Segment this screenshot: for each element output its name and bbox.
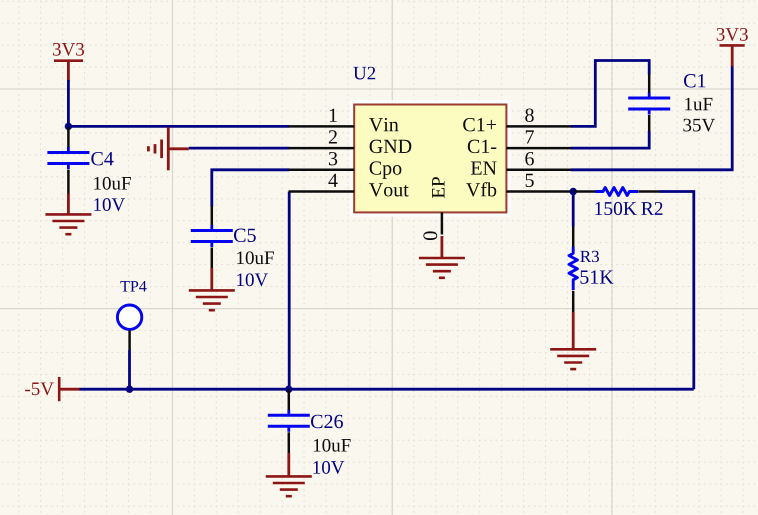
capacitor C4	[47, 147, 89, 169]
C4 designator label	[91, 152, 113, 165]
wire R2 to rail	[660, 192, 694, 390]
U2 pin 5 (Vfb)	[466, 174, 571, 197]
U2 pin 3 (Cpo)	[289, 152, 402, 179]
capacitor C26 ground lead	[287, 453, 290, 476]
capacitor C4 lead top	[67, 127, 70, 148]
wire net C1+ (pin 8 to C1)	[571, 61, 649, 127]
wire net EN (pin 6 to 3V3)	[571, 66, 732, 170]
junction at C26 / Vout / -5V rail	[285, 386, 292, 393]
capacitor C5	[191, 225, 233, 247]
capacitor C5 ground lead	[210, 268, 213, 290]
U2 pin 1 (Vin)	[289, 109, 399, 132]
C1 designator label	[684, 74, 705, 87]
C26 designator label	[311, 415, 343, 428]
R3 value 51K	[580, 270, 613, 283]
IC U2 body	[354, 105, 506, 213]
capacitor C4 lead bottom	[67, 170, 70, 194]
TP4 label	[120, 281, 146, 292]
power port 3V3 (right)	[717, 28, 748, 66]
wire net Vin (to pin 1)	[68, 125, 289, 128]
wire net C1- (C1 to pin 7)	[571, 131, 649, 148]
junction at 3V3/C4/Vin	[65, 123, 72, 130]
op-amp U2 body halo	[352, 102, 509, 215]
C26 value 10V	[313, 461, 344, 474]
test point TP4 pad	[117, 305, 141, 329]
C1 value 1uF	[685, 98, 712, 111]
resistor R3	[569, 247, 577, 290]
power port 3V3 (left)	[53, 43, 84, 81]
U2 pin 8 (C1+)	[463, 109, 571, 132]
capacitor C26	[268, 410, 310, 432]
wire net -5V rail	[79, 388, 694, 391]
ground below R3	[550, 349, 596, 369]
capacitor C5 lead top	[211, 206, 214, 226]
C4 value 10uF	[94, 177, 131, 190]
ground below C5	[189, 290, 235, 310]
ground below C26	[266, 476, 312, 496]
R2 lead right	[638, 190, 660, 193]
wire Vfb to R3	[572, 192, 575, 227]
wire 3V3L vertical	[67, 80, 70, 128]
junction at Vfb/R2/R3	[570, 188, 577, 195]
capacitor C5 lead bottom	[211, 248, 214, 269]
ground below EP	[419, 258, 465, 278]
resistor R2	[595, 188, 638, 196]
C1 value 35V	[683, 119, 715, 132]
capacitor C26 lead top	[288, 389, 291, 411]
wire TP4 to rail	[128, 350, 131, 389]
earth ground at GND pin	[148, 127, 188, 170]
R3 lead bottom	[572, 291, 575, 312]
TP4 lead	[128, 330, 131, 350]
wire net GND (to pin 2)	[189, 147, 289, 150]
U2 pin 2 (GND)	[289, 130, 412, 153]
C4 value 10V	[94, 198, 125, 211]
C5 designator label	[234, 229, 256, 242]
C5 value 10uF	[237, 251, 274, 264]
wire net Cpo (to pin 3)	[212, 170, 289, 207]
capacitor C4 ground lead	[67, 194, 70, 215]
R3 ground lead	[572, 312, 575, 349]
U2 designator label	[353, 67, 375, 80]
capacitor C1 lead bottom	[648, 115, 651, 132]
capacitor C1 lead top	[648, 74, 651, 94]
R2 lead left	[573, 190, 596, 193]
capacitor C1	[628, 93, 670, 115]
C26 value 10uF	[314, 439, 351, 452]
capacitor C26 lead bottom	[288, 432, 291, 453]
C5 value 10V	[237, 273, 268, 286]
wire net Vout vertical	[288, 192, 291, 390]
U2 pin EP (0)	[423, 177, 444, 240]
R2 value 150K	[595, 202, 636, 215]
R2 designator label	[641, 202, 662, 215]
U2 pin 6 (EN)	[471, 152, 572, 175]
EP ground lead	[440, 236, 443, 258]
U2 pin 4 (Vout)	[289, 174, 409, 197]
R3 lead top	[572, 227, 575, 248]
ground below C4	[45, 214, 91, 234]
power port -5V	[25, 377, 79, 401]
U2 pin 7 (C1-)	[468, 130, 572, 153]
R3 designator label	[580, 251, 599, 262]
junction at TP4 / -5V rail	[126, 386, 133, 393]
